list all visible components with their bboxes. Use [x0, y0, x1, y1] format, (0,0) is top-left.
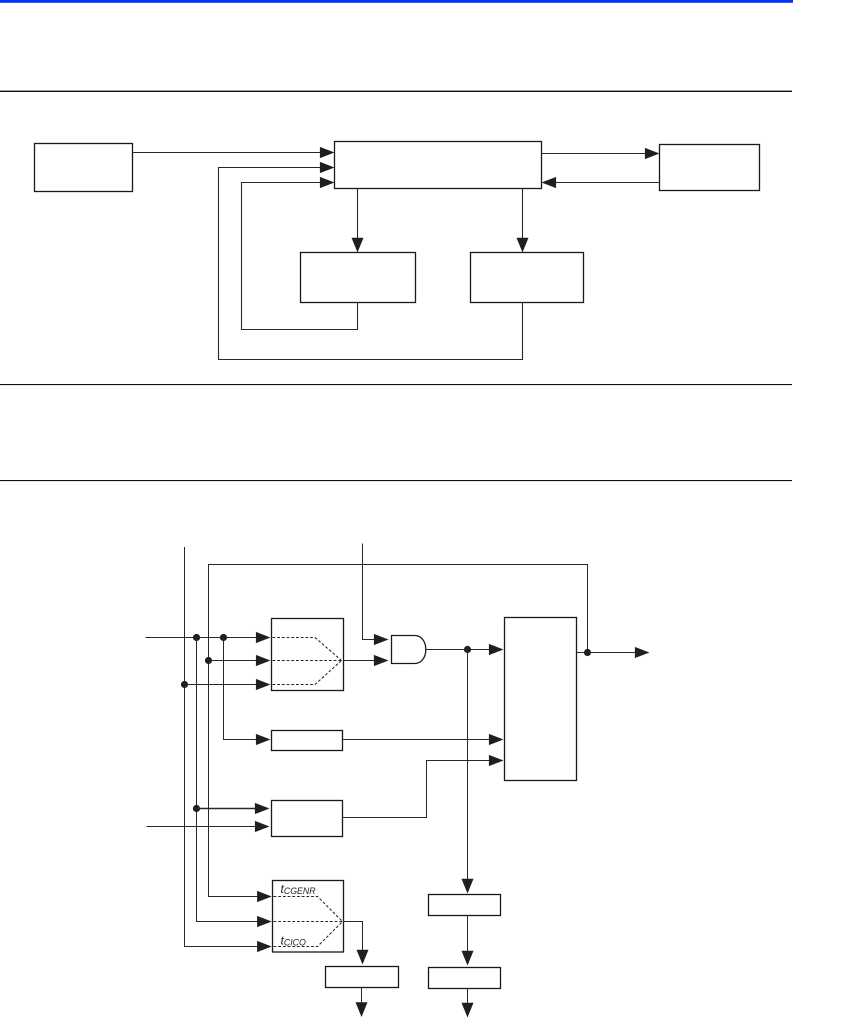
- svg-text:tCGENR: tCGENR: [281, 882, 317, 896]
- stub wire AND input (net N2): [363, 544, 376, 640]
- wire L to C: [133, 152, 322, 154]
- input wire 2 to M2: [147, 826, 257, 828]
- AND gate U1: [392, 636, 426, 664]
- feedback wire S1 to C: [242, 183, 358, 330]
- header rule 1: [0, 91, 792, 92]
- block S1 (lower-left block): [301, 253, 416, 303]
- junction dot on net N1: [181, 681, 188, 688]
- wire C to S2: [522, 189, 524, 240]
- wire C to S1: [357, 189, 359, 240]
- register block (tall): [505, 618, 577, 781]
- AND output wire to register: [426, 649, 491, 651]
- T1 output wire down: [361, 988, 363, 1004]
- junction dot on feedback net: [205, 657, 212, 664]
- delay block M1: [272, 731, 343, 751]
- wire N1 to mux input3: [185, 684, 258, 686]
- wire C to R: [542, 153, 647, 155]
- mux output wire to AND: [344, 660, 376, 662]
- section rule 3: [0, 480, 792, 481]
- junction N3 branch V4: [220, 634, 227, 641]
- junction AND output: [464, 646, 471, 653]
- block T1: [326, 967, 399, 988]
- block B: [429, 968, 501, 989]
- M1 output wire to register input2: [343, 739, 491, 741]
- wire feedback to mux input2: [209, 660, 258, 662]
- wire R to C: [555, 182, 660, 184]
- feedback net from register output: [209, 565, 588, 897]
- mux block (dashed 3-input select): [272, 619, 344, 691]
- junction dot on net V2: [193, 805, 200, 812]
- bold wire V2 to M2 input1: [197, 808, 257, 810]
- block B output wire down: [467, 989, 469, 1005]
- wire V4 to M1 input: [224, 638, 258, 740]
- wire V2 to timing block input2: [197, 638, 260, 922]
- junction register output: [584, 649, 591, 656]
- middle dashed route: [274, 921, 343, 923]
- svg-text:tCICO: tCICO: [281, 934, 306, 948]
- section rule 2: [0, 384, 792, 385]
- register output wire: [577, 652, 637, 654]
- block A: [429, 895, 501, 916]
- block S2 (lower-right block): [471, 253, 584, 303]
- block C (controller block): [335, 142, 542, 189]
- mux dashed route input2: [273, 660, 342, 662]
- M2 output wire to register input3: [343, 761, 491, 818]
- junction N3 branch V2: [193, 634, 200, 641]
- block R (right block): [660, 145, 760, 191]
- timing block output wire to T1: [344, 922, 363, 952]
- tCICO dashed route: [274, 922, 343, 947]
- block M2: [272, 801, 343, 837]
- input wire 1 (net N3): [146, 637, 258, 639]
- wire AND output down to block A: [467, 650, 469, 881]
- wire block A to block B: [467, 916, 469, 953]
- stub wire left input (net N1): [185, 547, 260, 947]
- tCGENR dashed route: [274, 897, 343, 922]
- mux dashed route input3: [273, 661, 342, 685]
- feedback wire S2 to C: [219, 168, 523, 360]
- mux dashed route input1: [273, 638, 342, 661]
- block L (input block): [35, 144, 133, 192]
- header blue bar: [0, 0, 793, 3]
- timing block tCGENR/tCICO: [273, 881, 344, 953]
